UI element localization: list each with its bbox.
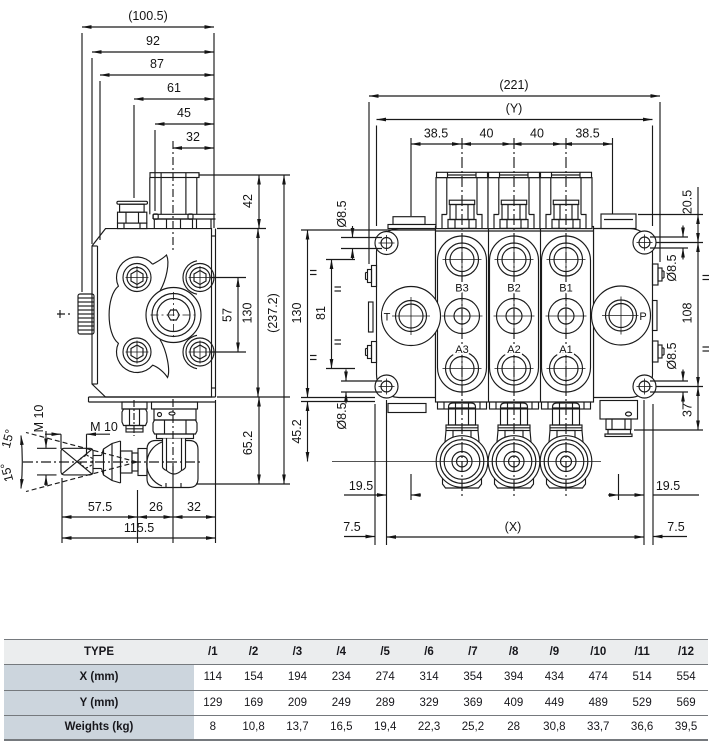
dim o8.5 bottom-left <box>335 370 382 430</box>
central spool circle <box>151 292 197 338</box>
elbow fitting <box>152 402 198 439</box>
svg-text:42: 42 <box>241 194 255 208</box>
svg-text:19.5: 19.5 <box>349 479 373 493</box>
lever housing <box>147 441 198 488</box>
svg-text:Ø8.5: Ø8.5 <box>665 342 679 369</box>
dim 42 <box>199 175 290 229</box>
svg-text:38.5: 38.5 <box>575 127 599 141</box>
port labels <box>455 283 572 357</box>
port B1 <box>547 240 586 279</box>
dim 65.2 <box>196 397 290 484</box>
dim (221) <box>369 78 660 264</box>
dim o8.5 top-left <box>335 200 382 260</box>
mounting ear top-left <box>375 232 398 255</box>
dim (237.2) <box>266 175 284 484</box>
left plate bottom step <box>388 404 426 413</box>
section 3 spool bore <box>442 296 483 337</box>
svg-text:(237.2): (237.2) <box>266 293 280 333</box>
dim 61 <box>134 81 214 198</box>
dim 108 <box>656 243 709 387</box>
elbow tube front <box>163 439 186 475</box>
port B2 <box>495 240 534 279</box>
svg-text:(Y): (Y) <box>506 102 523 116</box>
dim (Y) <box>377 102 653 227</box>
clevis <box>61 448 93 475</box>
right plate top cap <box>601 214 636 229</box>
dim 115.5 <box>62 521 216 538</box>
M10 stud fitting <box>122 400 147 436</box>
tie rod nuts right <box>653 264 665 285</box>
svg-text:A2: A2 <box>507 344 520 356</box>
svg-text:Ø8.5: Ø8.5 <box>335 402 349 429</box>
svg-text:15°: 15° <box>0 461 16 483</box>
svg-text:B3: B3 <box>455 283 468 295</box>
dim 45.2 <box>290 402 375 462</box>
spec table <box>4 639 708 741</box>
svg-text:7.5: 7.5 <box>667 520 684 534</box>
section 3 cap <box>436 172 488 228</box>
section 1 cap <box>540 172 592 228</box>
plug under P plate <box>600 401 638 437</box>
section 2 port face <box>490 236 539 392</box>
svg-text:57: 57 <box>221 308 235 322</box>
15deg dashed rays <box>0 428 137 492</box>
handle rod <box>93 456 102 469</box>
svg-text:Ø8.5: Ø8.5 <box>665 254 679 281</box>
port B3 <box>443 240 482 279</box>
svg-text:61: 61 <box>167 81 181 95</box>
svg-text:(100.5): (100.5) <box>128 9 168 23</box>
knob horizontal centerline <box>332 461 601 463</box>
dim 130 right view <box>290 230 436 398</box>
central boss blob <box>146 288 201 343</box>
nut band <box>154 219 211 229</box>
section 1 spool bore <box>546 296 587 337</box>
cover flange band <box>153 214 216 219</box>
svg-text:87: 87 <box>150 57 164 71</box>
bottom plate <box>89 397 216 402</box>
svg-text:B2: B2 <box>507 283 520 295</box>
svg-text:40: 40 <box>530 127 544 141</box>
M10 vertical label <box>32 405 57 486</box>
bellows <box>102 441 148 483</box>
svg-text:92: 92 <box>146 34 160 48</box>
inner contour peanut <box>109 257 168 378</box>
section 2 bottom bracket <box>490 402 539 488</box>
dim 19.5 left <box>344 474 421 500</box>
body outline <box>92 229 212 397</box>
svg-text:40: 40 <box>480 127 494 141</box>
M10 horizontal label <box>45 420 118 455</box>
svg-text:19.5: 19.5 <box>656 479 680 493</box>
svg-text:A1: A1 <box>559 344 572 356</box>
section 2 spool bore <box>494 296 535 337</box>
dim 57.5 26 32 <box>62 400 216 543</box>
T port boss <box>382 287 441 346</box>
dim 7.5 left <box>343 520 375 537</box>
dim 130 left view <box>217 229 290 398</box>
vertical centerline spool <box>172 141 174 250</box>
mounting ear bottom-left <box>375 375 398 398</box>
svg-text:32: 32 <box>186 130 200 144</box>
svg-text:20.5: 20.5 <box>681 190 695 214</box>
left plate top cap <box>388 217 436 229</box>
svg-text:15°: 15° <box>0 428 17 450</box>
svg-text:45.2: 45.2 <box>290 419 304 443</box>
dim o8.5 top-right <box>650 226 688 282</box>
dim (100.5) <box>82 9 214 292</box>
section 2 cap <box>488 172 540 228</box>
body band <box>436 227 594 403</box>
svg-text:B1: B1 <box>559 283 572 295</box>
small relief cap <box>117 201 148 228</box>
knurled knob <box>57 294 94 334</box>
dim 20.5 right <box>638 187 703 243</box>
dim 87 <box>100 57 214 240</box>
svg-text:M 10: M 10 <box>32 405 46 433</box>
dim 92 <box>92 34 214 244</box>
dim 57 <box>210 278 246 353</box>
lever centerline <box>23 461 200 463</box>
dim 37 <box>634 387 703 431</box>
dim 19.5 right <box>608 474 699 500</box>
section 1 port face <box>542 236 591 392</box>
svg-text:M 10: M 10 <box>90 420 118 434</box>
mounting ear top-right <box>633 231 656 254</box>
section 3 port face <box>438 236 487 392</box>
elbow centerline <box>172 399 174 473</box>
svg-text:(221): (221) <box>499 78 528 92</box>
tie rod nuts left <box>366 266 377 287</box>
svg-text:Ø8.5: Ø8.5 <box>335 200 349 227</box>
spool centerlines <box>461 138 463 499</box>
bolt boss BR <box>186 338 214 366</box>
svg-text:45: 45 <box>177 106 191 120</box>
svg-text:115.5: 115.5 <box>124 521 154 535</box>
port A3 <box>443 349 482 388</box>
section 1 relief knob <box>540 436 592 488</box>
dim 7.5 right <box>653 520 687 537</box>
svg-text:57.5: 57.5 <box>88 500 112 514</box>
top cap <box>150 173 199 215</box>
right end plate <box>594 229 653 398</box>
left end plate <box>377 229 436 398</box>
port A1 <box>547 349 586 388</box>
svg-text:P: P <box>639 311 646 323</box>
dims 38.5 40 40 38.5 <box>411 127 613 217</box>
section 1 bottom bracket <box>542 402 591 488</box>
left plate edge tab <box>369 302 374 332</box>
bolt boss BL <box>123 338 151 366</box>
svg-text:26: 26 <box>149 500 163 514</box>
svg-text:7.5: 7.5 <box>343 520 360 534</box>
svg-text:108: 108 <box>681 303 695 324</box>
dim 32 <box>173 130 215 148</box>
right plate edge tab <box>653 301 658 331</box>
svg-text:T: T <box>384 312 391 324</box>
section 2 relief knob <box>488 436 540 488</box>
svg-text:130: 130 <box>241 303 255 324</box>
svg-text:A3: A3 <box>455 344 468 356</box>
contour arcs right bosses <box>183 261 197 294</box>
svg-text:130: 130 <box>290 303 304 324</box>
svg-text:(X): (X) <box>505 520 522 534</box>
svg-text:37: 37 <box>681 403 695 417</box>
bolt boss TR <box>186 264 214 292</box>
svg-text:81: 81 <box>314 306 328 320</box>
dim o8.5 bottom-right <box>650 342 688 403</box>
mounting ear bottom-right <box>633 375 656 398</box>
contour top tail <box>153 255 168 291</box>
P port boss <box>592 286 651 345</box>
section 3 bottom bracket <box>438 402 487 488</box>
dim 81 <box>314 260 355 369</box>
section 3 relief knob <box>436 436 488 488</box>
port A2 <box>495 349 534 388</box>
svg-text:32: 32 <box>187 500 201 514</box>
body right face <box>215 229 217 397</box>
bolt boss TL <box>123 264 151 292</box>
svg-text:38.5: 38.5 <box>424 127 448 141</box>
svg-text:65.2: 65.2 <box>241 431 255 455</box>
dim 45 <box>155 106 214 211</box>
dim (X) <box>375 400 653 545</box>
